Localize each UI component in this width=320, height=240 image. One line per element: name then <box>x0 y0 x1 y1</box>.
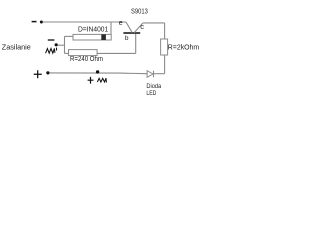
wire: resistor R2 bottom to LED cathode corner <box>164 55 166 74</box>
node: minus terminal dot <box>40 21 43 24</box>
svg-text:e: e <box>119 20 123 27</box>
wire: node to left bus <box>58 44 65 46</box>
wire: bottom positive rail <box>49 72 147 75</box>
transistor Q1 collector lead <box>134 23 143 33</box>
wire: collector to top right corner <box>143 22 165 24</box>
wire: LED cathode to right corner <box>154 73 165 75</box>
plus terminal mark <box>34 70 42 78</box>
svg-text:Zasilanie: Zasilanie <box>2 43 31 52</box>
svg-text:D=IN4001: D=IN4001 <box>78 24 108 33</box>
wire: left vertical bus <box>64 36 66 53</box>
LED D2 triangle <box>147 71 153 78</box>
node: junction dot on positive rail <box>96 70 99 73</box>
plus mark below rail junction <box>88 77 94 84</box>
wire: bus to resistor R1 left <box>65 52 69 54</box>
resistor R2 2kOhm box <box>161 39 168 55</box>
wire: diode cathode up to negative rail <box>110 22 112 34</box>
node: plus terminal dot <box>46 71 49 74</box>
wire: resistor R1 right to base riser <box>97 52 136 54</box>
svg-text:R=240 Ohm: R=240 Ohm <box>70 54 103 63</box>
resistor R1 240 Ohm box <box>69 50 98 56</box>
minus terminal mark <box>32 21 37 23</box>
node: left junction dot <box>55 43 58 46</box>
LED D2 cathode bar <box>153 71 155 78</box>
scribble beside mid plus mark <box>97 78 106 82</box>
wire: bus to diode anode <box>65 35 74 37</box>
svg-text:R=2kOhm: R=2kOhm <box>168 42 199 51</box>
svg-text:b: b <box>125 35 129 42</box>
wire: right drop to resistor R2 <box>164 23 166 39</box>
scribble under left node <box>46 48 57 54</box>
wire: top negative rail <box>43 21 126 23</box>
svg-text:LED: LED <box>146 90 156 97</box>
minus mark above left node <box>48 39 55 41</box>
transistor Q1 emitter lead <box>126 22 132 33</box>
diode cathode band <box>101 34 106 40</box>
svg-text:c: c <box>140 22 144 31</box>
svg-text:S9013: S9013 <box>131 6 148 15</box>
wire: base riser up to transistor base <box>135 33 137 53</box>
transistor Q1 base bar <box>123 32 140 34</box>
diode D (IN4001) body box <box>73 34 111 40</box>
